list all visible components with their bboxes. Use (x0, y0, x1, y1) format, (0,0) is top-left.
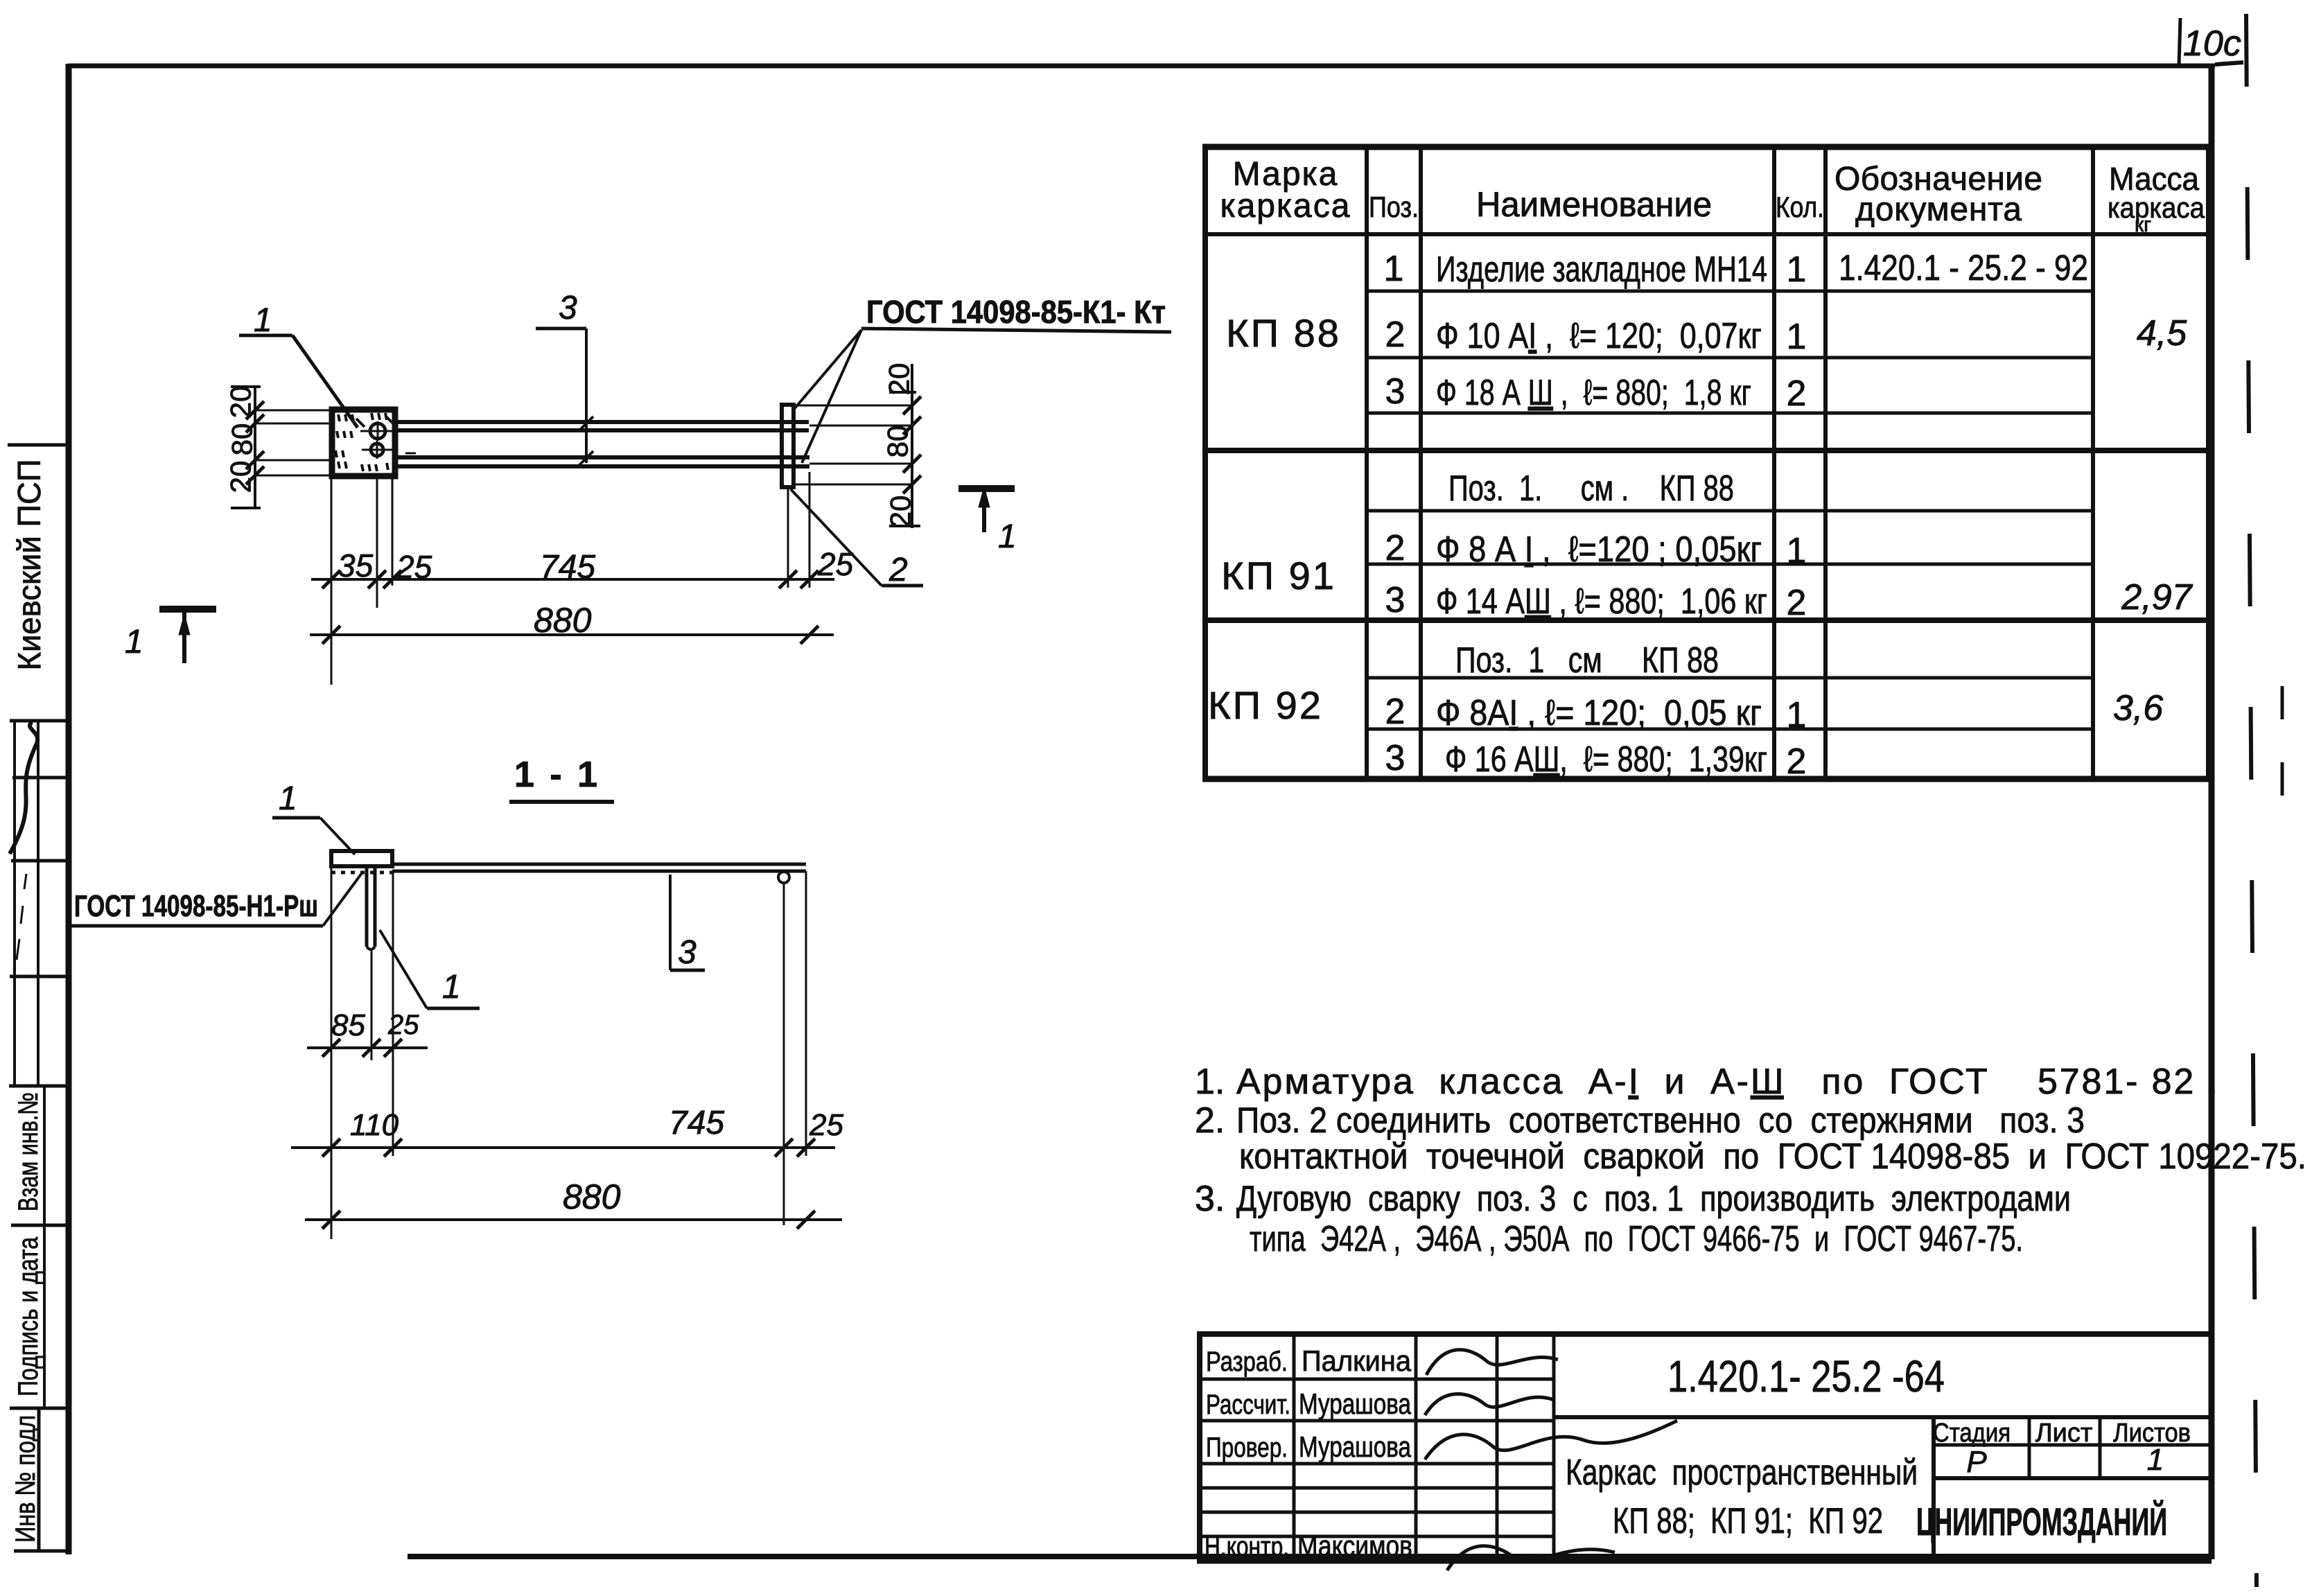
svg-text:1: 1 (254, 302, 272, 339)
svg-text:3: 3 (1385, 580, 1405, 620)
svg-text:ГОСТ 14098-85-Н1-Рш: ГОСТ 14098-85-Н1-Рш (74, 889, 318, 923)
svg-text:КП 88; КП 91; КП 92: КП 88; КП 91; КП 92 (1613, 1501, 1883, 1541)
svg-text:745: 745 (540, 549, 595, 586)
svg-text:1: 1 (2147, 1443, 2164, 1477)
svg-text:Дуговую сварку поз. 3 с по: Дуговую сварку поз. 3 с поз. 1 производи… (1236, 1179, 2071, 1219)
svg-text:Ф 8 А I , ℓ=120 ; 0,05кг: Ф 8 А I , ℓ=120 ; 0,05кг (1436, 529, 1762, 570)
svg-text:каркаса: каркаса (2108, 191, 2205, 224)
svg-text:3: 3 (1385, 738, 1405, 778)
svg-text:Ф 10 АI , ℓ= 120; 0,07кг: Ф 10 АI , ℓ= 120; 0,07кг (1436, 316, 1762, 356)
svg-text:1: 1 (998, 518, 1017, 555)
svg-text:20: 20 (883, 363, 916, 396)
svg-text:Мурашова: Мурашова (1299, 1430, 1411, 1463)
svg-text:Мурашова: Мурашова (1299, 1387, 1411, 1420)
svg-text:Н.контр.: Н.контр. (1205, 1532, 1289, 1562)
svg-text:Стадия: Стадия (1933, 1419, 2011, 1448)
svg-text:80: 80 (226, 423, 259, 456)
svg-text:1: 1 (1787, 249, 1807, 290)
svg-text:1: 1 (1787, 531, 1807, 571)
svg-text:2,97: 2,97 (2121, 577, 2193, 617)
svg-text:Р: Р (1966, 1445, 1987, 1479)
svg-text:Рассчит.: Рассчит. (1206, 1389, 1290, 1420)
svg-text:2.: 2. (1195, 1100, 1225, 1141)
svg-text:Максимов: Максимов (1297, 1529, 1412, 1562)
svg-text:10с: 10с (2183, 24, 2241, 64)
svg-text:каркаса: каркаса (1220, 188, 1351, 225)
svg-text:3: 3 (1385, 371, 1405, 412)
svg-text:типа Э42А , Э46А , Э50А по: типа Э42А , Э46А , Э50А по ГОСТ 9466-75 … (1250, 1219, 2023, 1259)
svg-text:КП 88: КП 88 (1226, 311, 1341, 355)
svg-text:20: 20 (884, 496, 917, 528)
svg-text:1: 1 (1384, 249, 1404, 289)
svg-text:Наименование: Наименование (1476, 185, 1712, 224)
svg-text:Лист: Лист (2035, 1419, 2093, 1448)
svg-text:Ф 8АI , ℓ= 120; 0,05 кг: Ф 8АI , ℓ= 120; 0,05 кг (1436, 693, 1762, 733)
svg-text:Ф 16 АШ, ℓ= 880; 1,39кг: Ф 16 АШ, ℓ= 880; 1,39кг (1445, 739, 1767, 780)
svg-text:110: 110 (350, 1108, 399, 1142)
svg-text:Взам инв.№: Взам инв.№ (13, 1092, 44, 1211)
svg-text:3.: 3. (1195, 1179, 1225, 1219)
svg-text:4,5: 4,5 (2137, 313, 2187, 353)
svg-text:1: 1 (1787, 317, 1807, 357)
svg-text:ЦНИИПРОМЗДАНИЙ: ЦНИИПРОМЗДАНИЙ (1916, 1500, 2167, 1543)
svg-text:3: 3 (678, 934, 697, 971)
svg-text:3,6: 3,6 (2113, 688, 2163, 728)
svg-text:Поз. 2 соединить соответствен: Поз. 2 соединить соответственно со стерж… (1236, 1100, 2085, 1141)
svg-text:1: 1 (125, 624, 143, 660)
svg-text:35: 35 (338, 547, 374, 584)
svg-text:Палкина: Палкина (1302, 1344, 1412, 1377)
svg-text:1.420.1- 25.2 -64: 1.420.1- 25.2 -64 (1667, 1351, 1945, 1401)
svg-text:880: 880 (534, 601, 592, 640)
svg-text:Поз. 1. см . КП 88: Поз. 1. см . КП 88 (1448, 468, 1734, 509)
svg-text:Подпись и дата: Подпись и дата (13, 1236, 44, 1396)
svg-text:2: 2 (1787, 583, 1807, 623)
svg-text:Ф 14 АШ , ℓ= 880; 1,06 кг: Ф 14 АШ , ℓ= 880; 1,06 кг (1436, 581, 1767, 622)
svg-text:2: 2 (1385, 528, 1405, 568)
svg-text:1.: 1. (1195, 1062, 1225, 1102)
svg-text:2: 2 (1787, 374, 1807, 414)
svg-text:2: 2 (1385, 315, 1405, 355)
svg-text:3: 3 (559, 290, 577, 326)
svg-text:Провер.: Провер. (1206, 1432, 1288, 1463)
svg-text:Киевский ПСП: Киевский ПСП (11, 459, 47, 671)
svg-text:ГОСТ 14098-85-К1- Кт: ГОСТ 14098-85-К1- Кт (866, 294, 1166, 330)
svg-text:1: 1 (279, 780, 297, 817)
svg-text:контактной точечной сваркой: контактной точечной сваркой по ГОСТ 1409… (1239, 1137, 2306, 1177)
svg-text:Кол.: Кол. (1776, 191, 1824, 223)
svg-text:2: 2 (888, 552, 908, 588)
svg-text:Поз.: Поз. (1369, 191, 1419, 223)
svg-text:Каркас пространственный: Каркас пространственный (1566, 1453, 1918, 1493)
svg-text:2: 2 (1787, 742, 1807, 782)
svg-text:25: 25 (809, 1108, 843, 1142)
svg-text:КП 91: КП 91 (1221, 554, 1336, 597)
svg-text:Ф 18 А Ш , ℓ= 880; 1,8 кг: Ф 18 А Ш , ℓ= 880; 1,8 кг (1436, 373, 1751, 413)
svg-text:25: 25 (817, 546, 854, 582)
svg-text:880: 880 (563, 1177, 621, 1216)
svg-text:745: 745 (669, 1105, 724, 1141)
svg-text:1: 1 (442, 969, 461, 1006)
svg-text:85: 85 (331, 1008, 365, 1042)
svg-text:Изделие закладное МН14: Изделие закладное МН14 (1436, 249, 1767, 290)
svg-text:документа: документа (1855, 191, 2022, 228)
svg-text:КП 92: КП 92 (1208, 683, 1323, 727)
svg-text:1: 1 (1787, 695, 1807, 735)
svg-text:80: 80 (882, 426, 914, 458)
svg-text:Инв № подл: Инв № подл (10, 1415, 41, 1543)
svg-text:25: 25 (387, 1010, 419, 1040)
svg-text:20: 20 (225, 461, 257, 493)
svg-text:Арматура класса А-I и А-Ш: Арматура класса А-I и А-Ш по ГОСТ 5781- … (1236, 1062, 2218, 1102)
svg-text:1 - 1: 1 - 1 (514, 755, 600, 795)
svg-text:1.420.1 - 25.2 - 92: 1.420.1 - 25.2 - 92 (1839, 248, 2088, 288)
svg-text:Поз. 1 см КП 88: Поз. 1 см КП 88 (1455, 640, 1719, 681)
svg-text:25: 25 (396, 549, 432, 585)
svg-text:2: 2 (1385, 692, 1405, 732)
svg-text:20: 20 (225, 386, 257, 419)
svg-text:кг: кг (2135, 213, 2151, 236)
svg-text:Разраб.: Разраб. (1206, 1347, 1288, 1377)
